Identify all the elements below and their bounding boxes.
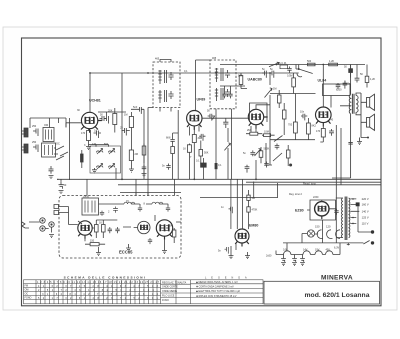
svg-text:1,2K: 1,2K (329, 60, 334, 63)
capacitor C1 (33, 129, 38, 137)
svg-text:170: 170 (316, 130, 321, 133)
capacitor C15 (block) (201, 163, 207, 167)
svg-text:FILO LUCE: FILO LUCE (162, 295, 175, 298)
resistor R7 (199, 150, 203, 157)
svg-text:1,2K: 1,2K (370, 78, 375, 81)
svg-text:220 V: 220 V (362, 197, 369, 201)
border frame (22, 38, 382, 306)
resistor R11 (264, 134, 271, 137)
T5 secondary (349, 198, 350, 238)
T2 core 2 (165, 90, 167, 102)
svg-text:125 V: 125 V (362, 216, 369, 220)
ground G4 (92, 168, 97, 173)
wire ground bus (57, 178, 381, 180)
svg-text:UF89: UF89 (197, 98, 206, 102)
capacitor C17 (223, 120, 228, 128)
svg-text:UKW: UKW (83, 195, 89, 198)
resistor R27 (278, 95, 282, 103)
svg-text:Regol. tono: Regol. tono (303, 183, 316, 186)
svg-text:500K: 500K (264, 148, 270, 151)
capacitor C22 (block) (349, 69, 353, 73)
wire B+ drop (296, 65, 357, 77)
svg-text:0,1: 0,1 (94, 130, 98, 133)
svg-text:1K: 1K (99, 222, 102, 225)
svg-text:2x50: 2x50 (266, 255, 272, 258)
wire feedback pair (336, 125, 341, 243)
svg-text:110 V: 110 V (362, 222, 369, 226)
capacitor C6 grid right (100, 116, 107, 121)
IF transformer T2 (dashed can) (148, 60, 180, 180)
dial lamp loop 3 (336, 230, 340, 239)
svg-text:150: 150 (90, 240, 95, 243)
svg-text:300: 300 (198, 137, 203, 140)
wire HT down (307, 210, 323, 243)
electrolytic C36 (292, 257, 297, 262)
capacitor C38 (275, 144, 280, 150)
wire above FM box (120, 193, 181, 196)
wire T3 top (196, 60, 211, 110)
speaker SP2 (348, 93, 374, 145)
tube ECC85 triode b (small) (138, 221, 150, 233)
svg-text:. 3 1 . 6 2 . 8 1 . 4 2 . 7 3: . 3 1 . 6 2 . 8 1 . 4 2 . 7 3 . 5 1 . 6 … (38, 293, 159, 296)
capacitor C30 (108, 227, 112, 233)
ground G13 (292, 263, 297, 266)
svg-text:2x50: 2x50 (313, 196, 319, 199)
ground G5 (129, 168, 134, 173)
wire feed FM box b (135, 179, 137, 195)
svg-text:130: 130 (92, 143, 97, 146)
svg-text:150: 150 (315, 225, 320, 229)
svg-text:1M: 1M (124, 114, 127, 117)
antenna jack J2 (22, 144, 29, 153)
switch S6 (274, 136, 283, 142)
wire left bottom (57, 179, 61, 181)
capacitor C7 (104, 116, 109, 124)
coil L3c (97, 164, 103, 170)
wire feeds (231, 179, 243, 229)
coil L3b (109, 149, 115, 155)
svg-text:OC: OC (25, 293, 29, 296)
svg-text:120: 120 (326, 225, 331, 229)
capacitor C18 (250, 150, 255, 156)
svg-text:500: 500 (104, 143, 109, 146)
T2 secondary coil (158, 90, 161, 103)
resistor R13 (308, 63, 316, 66)
wire B+ bus top (90, 72, 270, 74)
resistor R25 detector load (239, 76, 243, 85)
svg-text:0,5M: 0,5M (287, 75, 293, 78)
resistor R2 (113, 114, 117, 125)
wire cathode (251, 125, 256, 133)
FM antenna terminal 1 (54, 205, 59, 209)
capacitor C21 on bus (270, 71, 277, 78)
wire pot column top (269, 73, 271, 105)
resistor R20 (173, 230, 176, 237)
capacitor C34 (225, 247, 229, 254)
svg-text:5 2 . 1 7 . 3 2 . 6 1 . 4 8 .: 5 2 . 1 7 . 3 2 . 6 1 . 4 8 . 2 3 . 7 1 … (38, 297, 159, 300)
coil L3a (97, 149, 103, 155)
ground G10 (229, 246, 234, 259)
FM tuner box (dashed) (59, 196, 181, 259)
wire fm out (155, 215, 181, 222)
wire lower bus 2 (246, 181, 381, 183)
wire fm top rail (99, 204, 169, 206)
svg-text:10n: 10n (300, 111, 305, 114)
phono jack circles (40, 218, 45, 223)
wire mains (283, 243, 363, 246)
capacitor C14 (166, 164, 170, 170)
capacitor C39 (336, 83, 341, 89)
wire ecc85a (69, 213, 86, 242)
svg-text:20K: 20K (108, 110, 113, 113)
svg-text:✚ CORTA ONDA CAMPIONE: ✚ CORTA ONDA CAMPIONE 3 mV (196, 286, 234, 289)
resistor R12 (292, 78, 296, 87)
T2 primary coil (158, 70, 161, 84)
T2 primary trimmer (168, 72, 173, 80)
wire switch column (54, 118, 70, 180)
svg-text:465: 465 (212, 57, 217, 60)
T3 primary trimmer (225, 70, 230, 78)
resistor R4 (129, 150, 133, 161)
svg-text:160 V: 160 V (362, 203, 369, 207)
capacitor C16 + diode between tubes (208, 114, 215, 121)
table outer box (24, 280, 264, 304)
power transformer T5 primary (342, 198, 343, 238)
coil can L1 (43, 128, 54, 142)
wire right column (121, 73, 123, 179)
resistor R8 (171, 147, 175, 154)
capacitor C23 (355, 76, 360, 82)
trimmer C26 (100, 211, 104, 216)
title box (264, 281, 380, 304)
resistor R15 (365, 76, 369, 82)
potentiometer P2 arrow (255, 149, 261, 157)
wire HT loop (310, 200, 336, 220)
svg-text:FONO: FONO (162, 299, 169, 302)
T3 secondary trimmer (225, 89, 230, 97)
wire screen UF89 (173, 110, 179, 179)
ground G2 (59, 191, 64, 194)
choke L10 (326, 251, 333, 255)
svg-text:6,3V: 6,3V (334, 247, 339, 250)
svg-text:ECC85: ECC85 (119, 250, 133, 255)
wire T3 legs down (216, 109, 231, 180)
T3 primary coil (215, 68, 218, 82)
coil L6 (152, 202, 163, 204)
wire fm ant (59, 207, 69, 213)
svg-text:◆ ELETTROLITICI TUTTI I VALO: ◆ ELETTROLITICI TUTTI I VALORI in µF (196, 290, 241, 293)
svg-text:UCH81: UCH81 (89, 98, 101, 102)
capacitor C10 (122, 128, 130, 136)
potentiometer P1 arrow (224, 143, 230, 151)
wire screen top (98, 108, 126, 116)
wire if out row (220, 86, 245, 92)
wire feed FM box d (174, 179, 176, 195)
coil L3d (109, 164, 115, 170)
resistor R9 (250, 132, 258, 135)
coil L5 (124, 202, 135, 204)
svg-text:UABC80: UABC80 (248, 77, 262, 81)
svg-text:700: 700 (288, 124, 293, 127)
wire anode UL84 (322, 65, 324, 108)
ground G9 (49, 235, 54, 238)
switch S3 mains (363, 241, 369, 245)
legend rows (191, 284, 264, 298)
trimmer C28 (138, 206, 142, 212)
svg-text:ONDE CORTE: ONDE CORTE (162, 286, 178, 289)
ground G11 (245, 252, 250, 259)
T5 taps (336, 198, 360, 238)
tube ECC85 triode a (78, 221, 92, 239)
svg-text:ONDE MEDIE: ONDE MEDIE (162, 290, 178, 293)
svg-text:Reg. tono 2: Reg. tono 2 (289, 193, 303, 196)
capacitor C13 (170, 137, 174, 145)
junction dot B (289, 164, 292, 167)
tube ECC85 triode c (156, 220, 172, 240)
svg-text:5nF: 5nF (133, 106, 138, 109)
T3 secondary coil (215, 88, 218, 101)
wire mid (92, 220, 137, 228)
wire feed FM box a (86, 179, 88, 195)
wire af coupling row (200, 182, 278, 198)
resistor R23 (294, 122, 298, 133)
svg-text:L E G E N D A: L E G E N D A (205, 277, 249, 280)
wire osc to bus (89, 145, 117, 180)
capacitor C43 (block) (81, 154, 84, 162)
svg-text:50K: 50K (204, 152, 209, 155)
resistor R5 (192, 135, 196, 143)
resistor R29 (283, 110, 287, 119)
capacitor C20 on bus (262, 71, 266, 78)
resistor R22 (247, 207, 250, 212)
wire pins down (189, 126, 199, 136)
svg-text:6K8: 6K8 (166, 137, 171, 140)
wire lamps (302, 234, 333, 243)
wire anode UCH81 (89, 73, 91, 112)
svg-text:14V: 14V (303, 249, 308, 252)
resistor R14 (329, 63, 338, 66)
coil can L2 (42, 143, 56, 157)
wire anode loop (250, 103, 268, 122)
wire plate loop (323, 84, 351, 96)
capacitor C47 (264, 162, 269, 168)
wire af out (256, 143, 272, 179)
svg-text:19V: 19V (315, 249, 320, 252)
pilot lamp LP1 (307, 230, 314, 237)
svg-text:1K: 1K (183, 148, 186, 151)
capacitor C11 (137, 107, 144, 114)
ground G7 (126, 244, 131, 251)
svg-text:45V: 45V (326, 249, 331, 252)
output transformer T4 (332, 65, 361, 179)
tube UCH81 (81, 112, 102, 132)
wire AGC line (131, 109, 144, 179)
resistor R6 (187, 145, 191, 153)
wire T2 left leg to ground bus (148, 108, 153, 180)
resistor R3 (129, 117, 133, 128)
wire into mixer grid (66, 123, 82, 128)
choke L9 (315, 251, 322, 255)
svg-text:EM80: EM80 (249, 223, 258, 227)
capacitor C25 (329, 129, 334, 136)
ground G12 (281, 263, 286, 266)
ground G15 (300, 263, 305, 266)
svg-text:4 1 . 6 2 . 3 7 . 1 5 . 2 8 .: 4 1 . 6 2 . 3 7 . 1 5 . 2 8 . 4 1 . 6 3 … (38, 285, 159, 288)
resistor R26 (287, 150, 291, 158)
resistor R28 (142, 146, 146, 155)
wire lower bus (118, 184, 381, 186)
table row lines (24, 284, 161, 300)
tube UL84 (316, 107, 332, 127)
tube EM80 magic eye (235, 229, 249, 247)
svg-text:8200: 8200 (336, 89, 342, 92)
dial lamp loop 1 (317, 230, 321, 239)
tube UABC80 (248, 109, 267, 128)
capacitor C12 (199, 134, 205, 141)
svg-text:250: 250 (32, 125, 37, 128)
band switch S1 (56, 146, 68, 160)
svg-text:2M: 2M (247, 129, 250, 132)
electrolytic C35 (281, 257, 286, 262)
svg-text:1M: 1M (273, 88, 276, 91)
potentiometer P3 arrow (265, 88, 273, 98)
T2 core (165, 70, 167, 83)
resistor R10 (259, 151, 263, 158)
svg-text:50K: 50K (238, 75, 243, 78)
svg-text:10M: 10M (264, 131, 269, 134)
svg-text:8K2: 8K2 (312, 125, 317, 128)
table fine column lines (41, 280, 158, 304)
svg-text:A.C.M.: A.C.M. (279, 62, 287, 65)
svg-text:0,1: 0,1 (196, 160, 200, 163)
ground G1 (49, 176, 54, 179)
wire tap column (358, 206, 373, 232)
capacitor C41 (228, 92, 232, 98)
svg-text:✚ RIPLES CON STRUMENTO 2: ✚ RIPLES CON STRUMENTO 25 mV (196, 295, 237, 298)
capacitor C42 (287, 67, 291, 73)
switch S5 AM/FM (269, 62, 279, 67)
switch S4 tone (273, 153, 282, 161)
wire g2 row (270, 105, 315, 165)
svg-text:0,1: 0,1 (218, 164, 222, 167)
capacitor C44 (142, 165, 147, 171)
svg-text:170: 170 (81, 132, 86, 135)
tone capacitor C24 (343, 81, 348, 89)
capacitor C32 (148, 238, 152, 244)
capacitor C37 (301, 114, 307, 121)
junction dot A (298, 68, 300, 70)
settings sub-table rows (161, 284, 191, 297)
wire det (202, 118, 248, 119)
capacitor C19 (245, 165, 250, 173)
wire volume column (227, 128, 229, 179)
junction dots bus (89, 72, 91, 74)
svg-text:UL84: UL84 (318, 79, 327, 83)
capacitor C46 (block) (215, 163, 218, 169)
dial lamp loop 2 (327, 230, 331, 239)
capacitor C33 (229, 207, 233, 214)
svg-text:0,1: 0,1 (184, 70, 188, 73)
svg-text:500: 500 (307, 60, 312, 63)
capacitor C3 + ground (49, 166, 54, 174)
svg-text:140: 140 (329, 119, 334, 122)
wire grid UL84 (270, 93, 316, 95)
wire B+ bus right (220, 64, 365, 66)
svg-text:2M: 2M (135, 153, 138, 156)
wire T2 legs (160, 60, 171, 112)
resistor R19 (90, 243, 99, 246)
svg-text:OC: OC (56, 143, 60, 146)
svg-text:SCHEMA DELLE CONNESSIONI: SCHEMA DELLE CONNESSIONI (64, 276, 147, 280)
zigzag mains aerial (22, 222, 29, 228)
tube UF89 (187, 111, 202, 130)
wire anode up (256, 105, 270, 110)
wire heater chain (276, 243, 340, 255)
trimmer C27 (113, 207, 118, 213)
choke L7 (284, 251, 291, 255)
svg-text:0,9: 0,9 (283, 249, 287, 252)
svg-text:◆ MEDIA ONDA TENS. ALTERN: ◆ MEDIA ONDA TENS. ALTERN. 1 mV (196, 281, 238, 284)
T5 core (345, 197, 347, 241)
svg-text:REGOLAZ. TONALITA: REGOLAZ. TONALITA (162, 281, 187, 284)
wire switch to UL84 (277, 65, 299, 74)
svg-text:10K: 10K (168, 225, 173, 228)
svg-text:FONO: FONO (25, 297, 32, 300)
ground G3 (86, 145, 91, 150)
electrolytic C45 (300, 257, 305, 262)
ground G6 (96, 247, 101, 256)
choke L8 (303, 251, 310, 255)
svg-text:OM: OM (25, 289, 29, 292)
svg-text:1 2 3 4 5 6 7 8 9 10 11 12 13: 1 2 3 4 5 6 7 8 9 10 11 12 13 14 15 16 1… (37, 281, 160, 284)
resistor R17 (95, 225, 99, 233)
T2 secondary trimmer (168, 91, 173, 99)
FM antenna terminal 2 (54, 211, 59, 215)
oscillator coil box L3 (90, 146, 121, 173)
capacitor C2 (33, 145, 38, 153)
ground G8 (162, 240, 167, 254)
resistor R18 (102, 225, 106, 233)
svg-text:FM: FM (25, 285, 28, 288)
svg-text:250: 250 (32, 141, 37, 144)
trimmer C29 (166, 206, 170, 212)
FM input coil can L4 (82, 198, 99, 215)
capacitor C48 (329, 209, 339, 215)
table left column line (36, 280, 191, 304)
capacitor C5 (94, 131, 102, 139)
svg-text:MINERVA: MINERVA (321, 274, 353, 281)
capacitor C31 (115, 227, 119, 233)
wire jacks (29, 222, 52, 233)
speaker SP1 (367, 94, 375, 110)
svg-text:mod. 620/1 Losanna: mod. 620/1 Losanna (305, 292, 370, 299)
svg-text:465: 465 (155, 58, 160, 61)
T3 core (221, 68, 223, 81)
wire em80 pins (236, 229, 249, 250)
svg-text:EZ80: EZ80 (295, 209, 304, 213)
IF transformer T3 (dashed can) (196, 60, 237, 179)
wire antenna top (30, 118, 66, 128)
component ACM (280, 65, 288, 69)
wire feed FM box c (147, 179, 149, 195)
capacitor C40 (222, 92, 226, 98)
resistor R24 (307, 123, 311, 134)
T3 core 2 (221, 88, 223, 100)
switch S2 (297, 69, 313, 77)
resistor R21 (247, 195, 250, 200)
svg-text:470K: 470K (252, 209, 258, 212)
wire psu left (276, 251, 303, 257)
